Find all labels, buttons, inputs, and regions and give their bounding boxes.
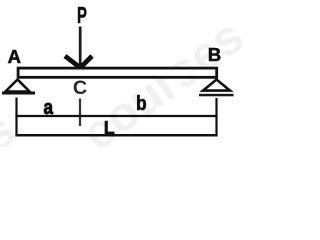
- svg-text:P: P: [77, 2, 87, 28]
- svg-text:A: A: [8, 46, 21, 67]
- svg-text:s: s: [0, 103, 25, 147]
- svg-text:b: b: [136, 93, 147, 116]
- svg-text:B: B: [208, 44, 222, 65]
- svg-text:L: L: [104, 118, 115, 138]
- svg-text:C: C: [73, 77, 87, 99]
- svg-text:a: a: [44, 96, 54, 119]
